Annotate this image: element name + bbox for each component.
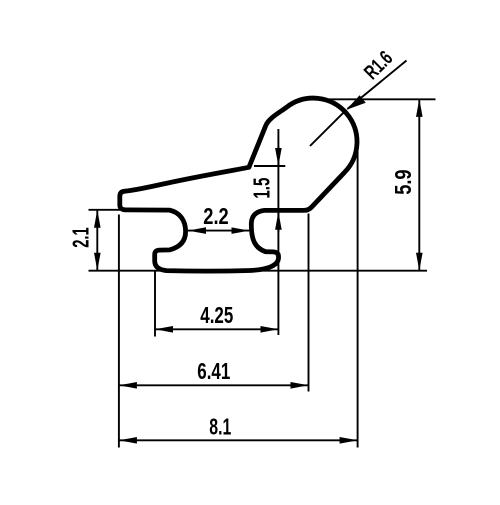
svg-text:1.5: 1.5: [248, 178, 274, 199]
tick at kink level (1.5 top): [254, 165, 285, 167]
dimension 1.5: [277, 146, 279, 232]
seal profile outline: [120, 98, 357, 271]
extension line at x=278 (1.5 dim line / 4.25 right): [277, 129, 279, 335]
extension line from bulb top right (5.9 top): [322, 98, 436, 100]
dimension 5.9: [418, 99, 420, 271]
radius callout R1.6 arrowhead: [346, 95, 366, 110]
extension line foot left (4.25 left): [154, 271, 156, 337]
svg-text:5.9: 5.9: [390, 169, 416, 194]
dimension 6.41: [119, 384, 309, 386]
extension line tail underside left (2.1 top): [89, 209, 121, 211]
svg-text:8.1: 8.1: [209, 414, 231, 440]
extension line from tail tip down (left end of 6.41 / 8.1): [118, 215, 120, 448]
svg-text:4.25: 4.25: [200, 302, 233, 328]
dimension 4.25: [155, 328, 278, 330]
dimension 2.1: [96, 210, 98, 271]
svg-text:2.2: 2.2: [203, 203, 228, 229]
svg-text:2.1: 2.1: [68, 227, 94, 248]
radius callout R1.6 leader: [310, 61, 407, 147]
dimension 8.1: [119, 439, 358, 441]
extension line from bulb right down (8.1 right): [357, 148, 359, 448]
baseline extension line (bottom): [89, 270, 428, 272]
extension line from hook ledge down (6.41 right): [308, 214, 310, 392]
dimension 2.2: [188, 230, 249, 232]
svg-text:6.41: 6.41: [197, 358, 230, 384]
